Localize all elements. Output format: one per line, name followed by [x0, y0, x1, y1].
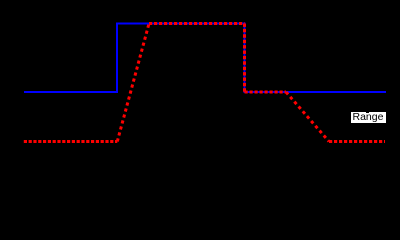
red dashed: rising diagonal [117, 24, 149, 142]
notch artifact on box top edge [366, 112, 368, 113]
blue signal line [24, 24, 386, 93]
red dashed: top segment [149, 22, 245, 25]
red dashed: right baseline [329, 140, 385, 143]
red dashed: right vertical drop [243, 24, 246, 93]
red dashed: falling diagonal [286, 92, 329, 142]
Range label text [352, 112, 383, 123]
red dashed: mid overlap segment [245, 91, 287, 94]
red dashed: left baseline [24, 140, 118, 143]
Range label box [351, 112, 386, 123]
